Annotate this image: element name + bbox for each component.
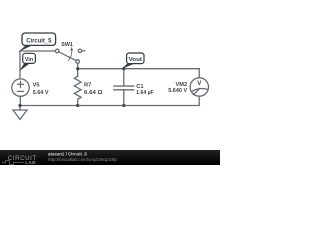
svg-text:1.64 µF: 1.64 µF [136,90,154,96]
svg-text:R7: R7 [84,83,91,89]
svg-text:atsean1 / Circuit_5: atsean1 / Circuit_5 [48,152,87,157]
svg-text:LAB: LAB [25,160,36,165]
svg-text:5.640 V: 5.640 V [168,88,187,94]
svg-text:Vin: Vin [25,57,34,63]
svg-text:Vout: Vout [129,57,142,63]
svg-text:http://circuitlab.com/ceq2z8xq: http://circuitlab.com/ceq2z8xq3z8p [48,157,118,162]
svg-text:SW1: SW1 [61,42,73,48]
svg-text:V5: V5 [33,83,40,89]
svg-text:5.64 V: 5.64 V [33,90,49,96]
svg-text:Circuit_5: Circuit_5 [26,37,52,44]
svg-text:6.64 Ω: 6.64 Ω [84,90,103,96]
